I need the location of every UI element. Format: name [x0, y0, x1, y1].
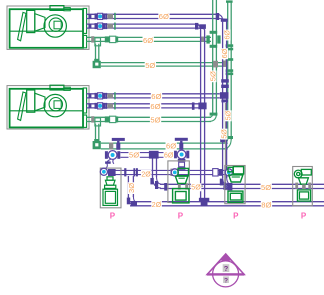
- gray block pump4: [302, 184, 306, 189]
- svg-text:5Ø: 5Ø: [261, 183, 271, 192]
- pump1 discharge drop PD1: [128, 176, 133, 197]
- gray flanges inside pump2 on H1: [178, 183, 181, 189]
- flanged valve CV1 pump1 suction: [105, 151, 108, 159]
- pump2 green body: [173, 168, 189, 203]
- label 5ø on H1: [191, 183, 202, 191]
- union on S2: [133, 168, 135, 176]
- svg-text:6Ø: 6Ø: [225, 30, 232, 40]
- svg-text:5Ø: 5Ø: [208, 71, 217, 81]
- svg-text:6Ø: 6Ø: [150, 102, 160, 111]
- tee P3 into riser V1: [220, 92, 229, 99]
- gray drain line: [225, 103, 232, 190]
- tee G1 to down stub: [95, 38, 101, 46]
- svg-text:6Ø: 6Ø: [151, 92, 161, 101]
- pipe P1 supply 6ø from B1: [87, 14, 218, 18]
- label 6ø on P4: [150, 102, 161, 111]
- boiler B1: [7, 6, 89, 50]
- pipe P2 return from B1: [87, 24, 197, 28]
- elbow D1 to H1: [153, 176, 162, 188]
- label 5ø on H1 right: [261, 183, 272, 192]
- gate valve on GH at pump2: [175, 138, 188, 141]
- pump unit 4 housing: [293, 167, 313, 206]
- gray segment on H1: [191, 185, 204, 186]
- pump3 green body: [228, 167, 244, 203]
- label 6ø riser V1: [221, 48, 228, 59]
- svg-text:6Ø: 6Ø: [222, 48, 229, 58]
- riser PV1 purple from P2: [201, 30, 205, 199]
- tee G3 to down stub: [95, 118, 101, 126]
- header H1 5ø: [160, 184, 324, 188]
- section marker text boxes: [223, 264, 230, 272]
- flange pump2 left on H1: [164, 183, 167, 191]
- pump1 green body: [103, 177, 118, 206]
- svg-text:5Ø: 5Ø: [129, 150, 139, 159]
- reducer below CV1: [106, 159, 114, 168]
- tee P4 into riser PV1: [198, 103, 206, 110]
- elbow P2 to riser PV1: [196, 24, 205, 30]
- elbow riser Gb into GH: [223, 139, 232, 149]
- tick valve on S2: [124, 168, 126, 176]
- label 6ø on P1: [158, 12, 169, 21]
- label 8ø on H2 right: [261, 200, 272, 209]
- svg-text:5Ø: 5Ø: [191, 185, 201, 192]
- svg-text:6Ø: 6Ø: [166, 141, 176, 150]
- cap on riser Gb: [226, 0, 233, 2]
- pipe S2 pump inlets: [113, 170, 225, 174]
- section marker circle: [213, 261, 239, 287]
- gray tick before pump2 inlet: [170, 169, 172, 176]
- tee G2 into riser Gb: [226, 58, 234, 61]
- pipe P3 6ø from B2: [87, 94, 220, 98]
- gray flanges pump4 on H1: [295, 183, 298, 189]
- pump unit 2 housing: [168, 161, 189, 203]
- tee riser PV1 into H2: [199, 198, 209, 202]
- pump2 top connector: [178, 159, 186, 162]
- label 5ø riser V1 low: [221, 129, 228, 140]
- label 2ø on H2: [151, 201, 162, 209]
- label 5ø riser Ga: [209, 70, 216, 82]
- pipe G1 6ø from B1: [87, 37, 212, 41]
- label 3ø on PD1: [128, 182, 135, 194]
- flanges on riser Gb: [226, 44, 234, 47]
- label 6ø riser Gb: [224, 30, 231, 41]
- elbow V1 into H1: [223, 176, 231, 188]
- svg-text:2Ø: 2Ø: [152, 202, 162, 209]
- svg-text:6Ø: 6Ø: [143, 36, 153, 45]
- svg-text:5Ø: 5Ø: [145, 61, 155, 70]
- svg-text:P: P: [178, 211, 184, 220]
- label 6ø on GH: [166, 141, 177, 150]
- fittings on G3: [91, 116, 94, 122]
- fittings on P2: [88, 24, 91, 28]
- svg-text:6Ø: 6Ø: [164, 152, 174, 159]
- fittings on P4: [88, 104, 91, 108]
- svg-text:P: P: [110, 211, 116, 220]
- label 2ø on S2: [141, 170, 152, 178]
- header H2 discharge: [130, 202, 324, 206]
- svg-text:P: P: [301, 211, 307, 220]
- riser V1 purple from P1: [223, 21, 227, 179]
- pump unit 1 housing: [100, 168, 121, 208]
- elbow riser Ga into G3: [209, 114, 217, 122]
- svg-text:5Ø: 5Ø: [150, 116, 160, 125]
- gray unions on G2 right end: [213, 61, 218, 68]
- boiler B2: [7, 85, 89, 129]
- pump2 inlet circle: [171, 169, 178, 176]
- tee G1 into riser Ga: [210, 31, 218, 34]
- pump1 inlet circle: [100, 168, 107, 175]
- elbow stub to G2: [93, 61, 101, 68]
- gate valve on GH at pump1: [112, 138, 125, 141]
- pump3 inlet valves: [213, 169, 218, 176]
- fittings on P3: [88, 94, 91, 98]
- riser Gb green capped: [228, 1, 232, 140]
- svg-text:2Ø: 2Ø: [141, 171, 151, 178]
- pump4 green body: [294, 169, 311, 201]
- svg-text:3Ø: 3Ø: [127, 183, 136, 193]
- elbow PD1 to H2: [128, 196, 136, 206]
- flanged valve CV2 pump2 suction: [174, 151, 177, 159]
- label 5ø on G3: [150, 116, 161, 125]
- section marker triangle: [207, 254, 244, 274]
- svg-text:?: ?: [224, 264, 229, 273]
- riser Ga green: [213, 0, 217, 115]
- label 6ø on G1: [143, 36, 154, 45]
- fitting on V1 low: [220, 139, 227, 142]
- label 5ø riser V1 mid: [225, 110, 232, 121]
- label 6ø on P3: [151, 92, 162, 101]
- pipe P4 6ø from B2: [87, 104, 200, 108]
- gray union on GH: [109, 143, 113, 150]
- pump3 inlet block: [227, 183, 232, 190]
- label 5ø on G2: [145, 61, 156, 70]
- valve tick on P4: [192, 102, 195, 109]
- section marker base line: [207, 273, 244, 275]
- flange pair on riser V1: [221, 79, 229, 82]
- svg-text:8Ø: 8Ø: [261, 200, 271, 209]
- label 6ø on S1b: [164, 151, 175, 159]
- elbow stub to GH: [93, 141, 101, 149]
- elbow P1 to riser V1: [217, 14, 227, 20]
- pump unit 3 housing: [225, 166, 245, 204]
- svg-text:?: ?: [224, 278, 228, 285]
- drop D1 from S1: [153, 159, 157, 178]
- pipe G2 5ø from B1: [101, 63, 228, 67]
- fittings on P1: [88, 14, 91, 18]
- pipe S1 5ø: [121, 153, 177, 158]
- tee S1 down to D1: [149, 151, 159, 159]
- svg-text:5Ø: 5Ø: [226, 110, 233, 120]
- fittings on G1: [91, 36, 94, 42]
- svg-text:5Ø: 5Ø: [221, 129, 228, 139]
- svg-text:6Ø: 6Ø: [159, 12, 169, 21]
- label 5ø on S1: [129, 150, 140, 159]
- gray union on G1 right: [201, 37, 205, 42]
- svg-text:P: P: [233, 211, 239, 220]
- header GH 6ø pump suction: [101, 143, 228, 149]
- pipe G3 5ø from B2: [87, 117, 212, 121]
